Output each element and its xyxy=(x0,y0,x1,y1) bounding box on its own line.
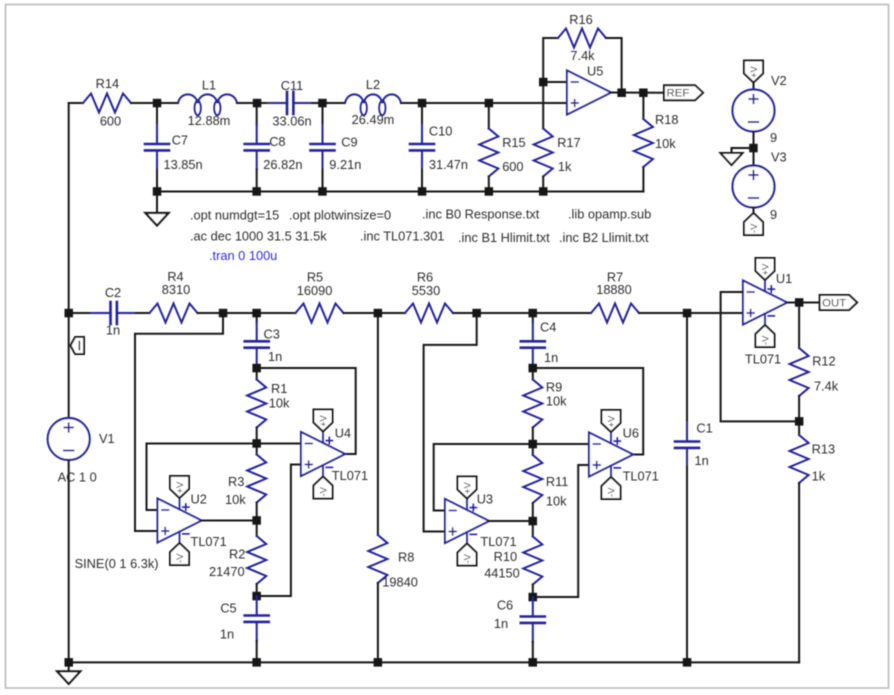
svg-text:600: 600 xyxy=(100,113,121,128)
svg-text:16090: 16090 xyxy=(297,283,333,298)
op-amp U2 xyxy=(158,492,227,549)
svg-text:.inc B1 Hlimit.txt: .inc B1 Hlimit.txt xyxy=(458,230,550,245)
flag V- U3 xyxy=(458,544,477,566)
svg-text:10k: 10k xyxy=(269,396,290,411)
capacitor C4 xyxy=(521,313,558,368)
svg-text:L1: L1 xyxy=(202,78,216,93)
svg-text:C10: C10 xyxy=(429,123,452,138)
ground filter xyxy=(146,192,169,226)
junction R8 bottom xyxy=(374,658,383,667)
resistor R1 xyxy=(247,368,290,444)
svg-text:R16: R16 xyxy=(569,12,592,27)
capacitor C11 xyxy=(257,78,323,128)
junction R15 bottom xyxy=(485,187,494,196)
svg-text:TL071: TL071 xyxy=(332,468,368,483)
flag I input marker xyxy=(71,337,85,354)
resistor R12 xyxy=(790,303,839,422)
svg-text:R11: R11 xyxy=(546,474,569,489)
svg-text:5530: 5530 xyxy=(412,283,440,298)
svg-text:9: 9 xyxy=(770,130,777,145)
node junction top rail 4 xyxy=(418,99,427,108)
flag V+ U1 xyxy=(756,258,775,280)
svg-text:+V: +V xyxy=(749,65,760,78)
svg-text:R17: R17 xyxy=(557,135,580,150)
junction U3 tap xyxy=(472,309,481,318)
op-amp U3 xyxy=(445,492,517,549)
svg-text:C4: C4 xyxy=(540,320,556,335)
capacitor C8 xyxy=(245,103,303,192)
svg-text:21470: 21470 xyxy=(209,564,245,579)
svg-text:10k: 10k xyxy=(225,492,246,507)
junction R2 C5 node xyxy=(252,592,261,601)
directive .inc B1 xyxy=(458,230,550,245)
svg-text:.lib opamp.sub: .lib opamp.sub xyxy=(568,207,651,222)
svg-text:TL071: TL071 xyxy=(623,468,659,483)
svg-text:9.21n: 9.21n xyxy=(329,157,361,172)
directive .opt plotwinsize xyxy=(289,208,391,223)
resistor R14 xyxy=(69,76,157,128)
op-amp U5 xyxy=(567,64,664,115)
flag REF output xyxy=(664,85,703,100)
svg-text:L2: L2 xyxy=(366,77,380,92)
svg-text:C5: C5 xyxy=(220,601,236,616)
resistor R3 xyxy=(225,444,266,521)
svg-text:+V: +V xyxy=(319,414,330,427)
op-amp U1 xyxy=(743,271,792,366)
junction C1 bottom xyxy=(683,658,692,667)
svg-text:+V: +V xyxy=(463,481,474,494)
flag OUT output xyxy=(820,295,858,310)
junction input node xyxy=(65,309,74,318)
inductor L2 xyxy=(323,77,423,127)
ground supply xyxy=(721,148,754,165)
resistor R5 xyxy=(257,270,378,323)
junction C9 bottom xyxy=(318,187,327,196)
wire V2 to V3 xyxy=(753,132,755,166)
svg-text:33.06n: 33.06n xyxy=(272,113,311,128)
directive .inc TL071 xyxy=(360,229,444,244)
svg-text:18880: 18880 xyxy=(596,282,632,297)
svg-text:TL071: TL071 xyxy=(191,534,227,549)
node junction top rail 2 xyxy=(253,99,261,108)
directive .lib opamp xyxy=(568,207,651,222)
wire left rail (input column) xyxy=(68,103,70,313)
capacitor C9 xyxy=(311,103,362,192)
svg-text:-V: -V xyxy=(761,335,772,345)
resistor R11 xyxy=(523,444,568,521)
svg-text:.inc TL071.301: .inc TL071.301 xyxy=(360,229,444,244)
flag V+ supply top xyxy=(744,61,763,91)
svg-text:.inc B2 Llimit.txt: .inc B2 Llimit.txt xyxy=(559,230,649,245)
svg-text:C1: C1 xyxy=(696,421,712,436)
junction U5 output xyxy=(617,89,626,98)
resistor R15 xyxy=(479,103,525,192)
junction C1 top xyxy=(683,309,692,318)
capacitor C1 xyxy=(675,313,713,662)
svg-text:R8: R8 xyxy=(398,550,414,565)
svg-text:19840: 19840 xyxy=(382,575,418,590)
junction R10 C6 node xyxy=(529,593,538,602)
wire to U4 noninverting input xyxy=(257,465,301,597)
wire U2 output xyxy=(202,520,257,522)
wire to U3 noninverting input xyxy=(424,313,477,532)
svg-text:1n: 1n xyxy=(695,453,709,468)
svg-text:V1: V1 xyxy=(99,431,115,446)
svg-text:V3: V3 xyxy=(771,150,787,165)
svg-text:SINE(0 1 6.3k): SINE(0 1 6.3k) xyxy=(75,556,159,571)
resistor R13 xyxy=(790,421,835,662)
junction C5 bottom xyxy=(252,658,261,667)
svg-text:-V: -V xyxy=(749,223,760,233)
flag V+ U6 xyxy=(602,410,621,432)
resistor R4 xyxy=(150,269,257,323)
wire rail to V1 xyxy=(68,313,70,418)
svg-text:R1: R1 xyxy=(271,381,287,396)
capacitor C5 xyxy=(220,596,269,662)
svg-text:1n: 1n xyxy=(268,349,282,364)
svg-text:12.88m: 12.88m xyxy=(188,113,231,128)
capacitor C6 xyxy=(494,597,545,662)
svg-text:1k: 1k xyxy=(558,159,572,174)
wire U3 output xyxy=(489,520,533,522)
svg-text:600: 600 xyxy=(502,159,523,174)
flag V- supply bottom xyxy=(744,208,763,236)
svg-text:-V: -V xyxy=(175,553,186,563)
svg-text:9: 9 xyxy=(770,207,777,222)
resistor R6 xyxy=(378,270,477,323)
wire node to U3 inverting input xyxy=(434,444,533,511)
svg-text:.inc B0 Response.txt: .inc B0 Response.txt xyxy=(422,207,540,222)
op-amp U4 xyxy=(301,425,368,483)
node junction R15 top xyxy=(485,99,494,108)
svg-text:.tran 0 100u: .tran 0 100u xyxy=(209,248,277,263)
wire to C4 xyxy=(477,312,533,314)
svg-text:C6: C6 xyxy=(497,597,513,612)
flag V- U2 xyxy=(170,543,189,565)
junction C4 bottom xyxy=(529,364,538,373)
junction U3 output node xyxy=(529,517,538,526)
junction C3 top xyxy=(252,309,261,318)
wire node to U6 inverting input xyxy=(533,443,589,445)
junction bottom rail left xyxy=(65,658,74,667)
junction R17 bottom xyxy=(539,187,548,196)
svg-text:+V: +V xyxy=(175,481,186,494)
directive .opt numdgt xyxy=(190,208,279,223)
resistor R8 xyxy=(368,535,417,662)
svg-text:10k: 10k xyxy=(546,394,567,409)
svg-text:U5: U5 xyxy=(587,64,603,79)
svg-text:1n: 1n xyxy=(494,616,508,631)
node junction top rail 1 xyxy=(153,99,162,108)
svg-text:C3: C3 xyxy=(264,326,280,341)
svg-text:-V: -V xyxy=(319,486,330,496)
svg-text:REF: REF xyxy=(667,88,690,100)
svg-text:10k: 10k xyxy=(655,136,676,151)
svg-text:R13: R13 xyxy=(812,442,835,457)
junction filter gnd xyxy=(153,187,162,196)
junction R12 R13 node xyxy=(795,417,804,426)
svg-text:31.47n: 31.47n xyxy=(429,157,468,172)
svg-text:V2: V2 xyxy=(771,73,787,88)
svg-text:R10: R10 xyxy=(494,549,517,564)
svg-text:7.4k: 7.4k xyxy=(570,48,595,63)
svg-text:TL071: TL071 xyxy=(745,352,781,367)
svg-text:1n: 1n xyxy=(544,350,558,365)
wire to U1 noninverting input xyxy=(687,312,743,314)
wire U4 feedback xyxy=(257,368,356,454)
svg-text:8310: 8310 xyxy=(162,282,190,297)
svg-text:OUT: OUT xyxy=(822,298,846,310)
svg-text:R2: R2 xyxy=(229,547,245,562)
svg-text:7.4k: 7.4k xyxy=(814,379,839,394)
flag V+ U3 xyxy=(458,477,477,499)
wire node to U4 inverting input xyxy=(257,443,301,445)
svg-text:U4: U4 xyxy=(335,425,351,440)
junction supply mid xyxy=(749,144,758,153)
svg-text:C11: C11 xyxy=(281,78,304,93)
svg-text:13.85n: 13.85n xyxy=(164,157,203,172)
node U5 inverting input xyxy=(539,78,567,87)
svg-text:.opt numdgt=15: .opt numdgt=15 xyxy=(190,208,279,223)
capacitor C10 xyxy=(410,103,468,192)
flag V+ U2 xyxy=(170,476,189,498)
svg-text:1n: 1n xyxy=(220,627,234,642)
svg-text:R9: R9 xyxy=(546,379,562,394)
wire node to U2 inverting input xyxy=(147,444,257,511)
voltage source V1 xyxy=(48,418,159,571)
directive .inc B2 xyxy=(559,230,649,245)
svg-text:.opt plotwinsize=0: .opt plotwinsize=0 xyxy=(289,208,391,223)
svg-text:.ac dec 1000 31.5 31.5k: .ac dec 1000 31.5 31.5k xyxy=(190,229,327,244)
svg-text:10k: 10k xyxy=(546,494,567,509)
svg-text:C8: C8 xyxy=(269,134,285,149)
junction C8 bottom xyxy=(252,187,261,196)
inductor L1 xyxy=(157,78,257,128)
svg-text:26.82n: 26.82n xyxy=(263,157,302,172)
svg-text:C7: C7 xyxy=(172,133,188,148)
svg-text:-V: -V xyxy=(607,487,618,497)
wire U1 output xyxy=(787,302,820,304)
junction C10 bottom xyxy=(418,187,427,196)
flag V- U6 xyxy=(602,477,621,499)
voltage source V2 xyxy=(733,73,787,145)
svg-text:R3: R3 xyxy=(228,474,244,489)
resistor R7 xyxy=(533,269,687,322)
svg-text:TL071: TL071 xyxy=(480,534,516,549)
svg-text:R18: R18 xyxy=(655,112,678,127)
junction R9 R11 node xyxy=(529,440,538,449)
svg-text:U3: U3 xyxy=(477,492,493,507)
wire bottom rail xyxy=(69,661,799,663)
node junction top rail 3 xyxy=(318,99,327,108)
flag V+ U4 xyxy=(314,410,333,432)
svg-text:-V: -V xyxy=(463,553,474,563)
junction R8 top xyxy=(374,309,383,318)
capacitor C3 xyxy=(245,313,283,368)
capacitor C7 xyxy=(145,103,203,192)
wire V1 to bottom rail xyxy=(68,460,70,662)
resistor R2 xyxy=(209,521,266,597)
svg-text:+V: +V xyxy=(607,415,618,428)
junction U2 output node xyxy=(252,516,261,525)
svg-text:U1: U1 xyxy=(776,271,792,286)
op-amp U6 xyxy=(589,425,659,483)
junction U1 output node xyxy=(795,298,804,307)
wire to U6 noninverting input xyxy=(533,465,589,597)
svg-text:1n: 1n xyxy=(106,323,120,338)
junction R4 out xyxy=(219,309,228,318)
svg-text:26.49m: 26.49m xyxy=(352,112,395,127)
svg-text:C2: C2 xyxy=(105,285,121,300)
resistor R16 feedback xyxy=(543,12,621,93)
svg-text:AC 1 0: AC 1 0 xyxy=(58,470,97,485)
wire U6 feedback xyxy=(533,368,643,455)
svg-text:R12: R12 xyxy=(812,353,835,368)
resistor R9 xyxy=(523,368,567,444)
directive .tran xyxy=(209,248,277,263)
svg-text:1k: 1k xyxy=(812,468,826,483)
wire filter bottom rail xyxy=(157,191,643,193)
junction C3 bottom xyxy=(252,364,261,373)
svg-text:44150: 44150 xyxy=(484,565,520,580)
svg-text:R14: R14 xyxy=(96,76,119,91)
junction R18 tap xyxy=(639,89,648,98)
svg-text:U6: U6 xyxy=(623,425,639,440)
resistor R10 xyxy=(484,521,542,597)
junction C6 bottom xyxy=(529,658,538,667)
voltage source V3 xyxy=(733,150,787,223)
svg-text:C9: C9 xyxy=(341,135,357,150)
junction C4 top xyxy=(529,309,538,318)
capacitor C2 xyxy=(69,285,150,338)
resistor R18 xyxy=(634,93,679,192)
flag V- U1 xyxy=(756,325,775,347)
wire to U2 noninverting input xyxy=(135,313,223,531)
directive .inc B0 xyxy=(422,207,540,222)
svg-text:+V: +V xyxy=(761,263,772,276)
svg-text:U2: U2 xyxy=(191,492,207,507)
wire R8 branch xyxy=(377,313,379,535)
ground main xyxy=(57,662,80,684)
wire top rail to U5 noninverting input xyxy=(422,102,567,104)
flag V- U4 xyxy=(314,477,333,499)
directive .ac dec xyxy=(190,229,327,244)
wire U1 feedback to R12 R13 node xyxy=(721,292,800,421)
svg-text:R15: R15 xyxy=(502,135,525,150)
resistor R17 xyxy=(534,82,581,192)
junction R1 R3 node xyxy=(252,439,261,448)
